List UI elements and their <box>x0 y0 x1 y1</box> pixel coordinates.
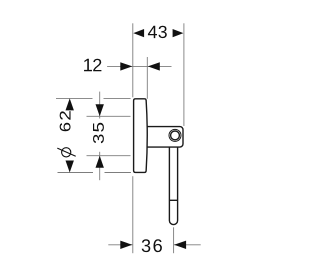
extension line bottom of O62 dim (plate bottom) <box>58 172 131 174</box>
dim text O62 (rotated, reads bottom-to-top) <box>57 111 75 157</box>
extension line top of 35 dim <box>87 115 131 117</box>
wall plate (rosette, side view) <box>134 99 148 173</box>
dimension line 35 (broken at text) <box>99 92 101 181</box>
pivot outer circle <box>169 129 181 141</box>
arrow 36 right (points left at centerline) <box>174 241 186 249</box>
extension line right of 12 dim (plate front face) <box>146 57 148 99</box>
dim text 36 <box>142 239 151 252</box>
arrow 35 bottom (points up at line) <box>96 156 104 168</box>
extension line right of 36 dim (bar centerline) <box>173 227 175 253</box>
dim text 35 (rotated, reads bottom-to-top) <box>93 134 104 143</box>
dim text 43 <box>148 26 157 38</box>
extension line left of 36 dim (wall plane below) <box>132 176 134 253</box>
extension line right of 43 dim (arm outer face) <box>183 23 185 126</box>
arrow 43 left <box>133 29 144 37</box>
holder bar (hanging rod, side view) <box>169 146 177 225</box>
bar seam line <box>169 199 177 201</box>
extension line bottom of 35 dim <box>87 155 131 157</box>
extension line top of O62 dim (plate top) <box>56 97 131 99</box>
dimension line 12 <box>107 65 171 67</box>
arrow 36 left (points right at wall line) <box>120 241 132 249</box>
extension line left (wall plane, shared by 43 and 12 dims) <box>132 23 134 97</box>
arrow 12 left (points right at wall line) <box>120 62 132 70</box>
arrow O62 top (points up) <box>66 98 74 110</box>
pivot inner circle <box>171 131 180 140</box>
arrow O62 bottom (points down) <box>66 161 74 173</box>
dimension line 36 <box>108 244 200 246</box>
arm (holder body) <box>141 127 183 148</box>
arrow 35 top (points down at line) <box>96 104 104 116</box>
arrow 43 right <box>173 29 184 37</box>
dim text 12 <box>84 59 92 72</box>
arrow 12 right (points left at plate face line) <box>148 62 160 70</box>
